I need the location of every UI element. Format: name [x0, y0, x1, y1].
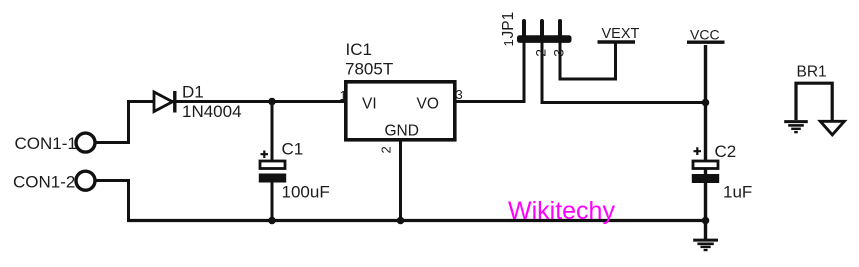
op-amp IC1 regulator box: [346, 82, 455, 140]
wire: CON1-1 riser: [129, 102, 346, 145]
svg-text:CON1-2: CON1-2: [13, 172, 75, 191]
wire: C1 top lead: [271, 100, 274, 161]
svg-text:C1: C1: [282, 140, 304, 159]
svg-text:1: 1: [501, 39, 516, 46]
svg-text:VCC: VCC: [690, 27, 720, 43]
svg-text:VO: VO: [417, 95, 439, 112]
wire: IC output to JP1 pin1: [455, 42, 524, 102]
svg-text:1: 1: [340, 88, 347, 103]
wire: IC GND lead: [399, 140, 402, 221]
node: junction at D1/C1: [268, 98, 276, 106]
svg-text:2: 2: [379, 146, 394, 153]
svg-text:VEXT: VEXT: [602, 26, 640, 42]
node: junction IC GND: [397, 217, 405, 225]
ground (earth) BR1 left: [784, 122, 808, 133]
wire: JP1 pin3 to VEXT: [560, 42, 616, 79]
svg-text:2: 2: [533, 49, 549, 57]
node: junction rail/ground: [702, 217, 710, 225]
svg-text:Wikitechy: Wikitechy: [508, 197, 615, 225]
svg-text:1uF: 1uF: [723, 182, 752, 201]
connector CON1-2: [76, 171, 95, 190]
wire: CON1-2 down to rail: [127, 179, 130, 221]
wire: bottom rail: [127, 219, 706, 222]
svg-text:JP1: JP1: [500, 12, 517, 39]
ground (earth) below C2: [693, 240, 718, 250]
svg-text:CON1-1: CON1-1: [15, 134, 77, 153]
wire: JP1 pin2 to VCC node: [542, 42, 706, 103]
ground (signal) BR1 right triangle: [820, 121, 844, 135]
svg-text:IC1: IC1: [346, 40, 372, 59]
svg-text:GND: GND: [385, 122, 419, 139]
JP1 pin stubs: [524, 21, 560, 36]
svg-text:1N4004: 1N4004: [182, 102, 242, 121]
svg-text:C2: C2: [715, 142, 737, 161]
wire: VCC vertical: [704, 45, 707, 240]
svg-text:3: 3: [551, 49, 567, 57]
BR1 frame: [796, 83, 832, 120]
svg-text:D1: D1: [182, 83, 204, 102]
svg-text:3: 3: [456, 87, 463, 102]
svg-text:100uF: 100uF: [282, 182, 330, 201]
svg-text:7805T: 7805T: [345, 59, 393, 78]
jumper JP1 header bar: [517, 35, 572, 43]
capacitor C1: [260, 161, 285, 169]
wire: CON1-2 stub: [95, 179, 129, 182]
svg-text:VI: VI: [362, 95, 377, 112]
svg-text:BR1: BR1: [797, 63, 827, 80]
wire: CON1-1 stub: [94, 141, 127, 144]
node: junction VCC: [702, 99, 710, 107]
connector CON1-1: [76, 133, 95, 152]
wire: C1 bottom lead: [271, 181, 274, 221]
diode D1: [154, 92, 173, 112]
node: junction C1 bottom: [268, 217, 276, 225]
capacitor C2: [693, 161, 718, 169]
